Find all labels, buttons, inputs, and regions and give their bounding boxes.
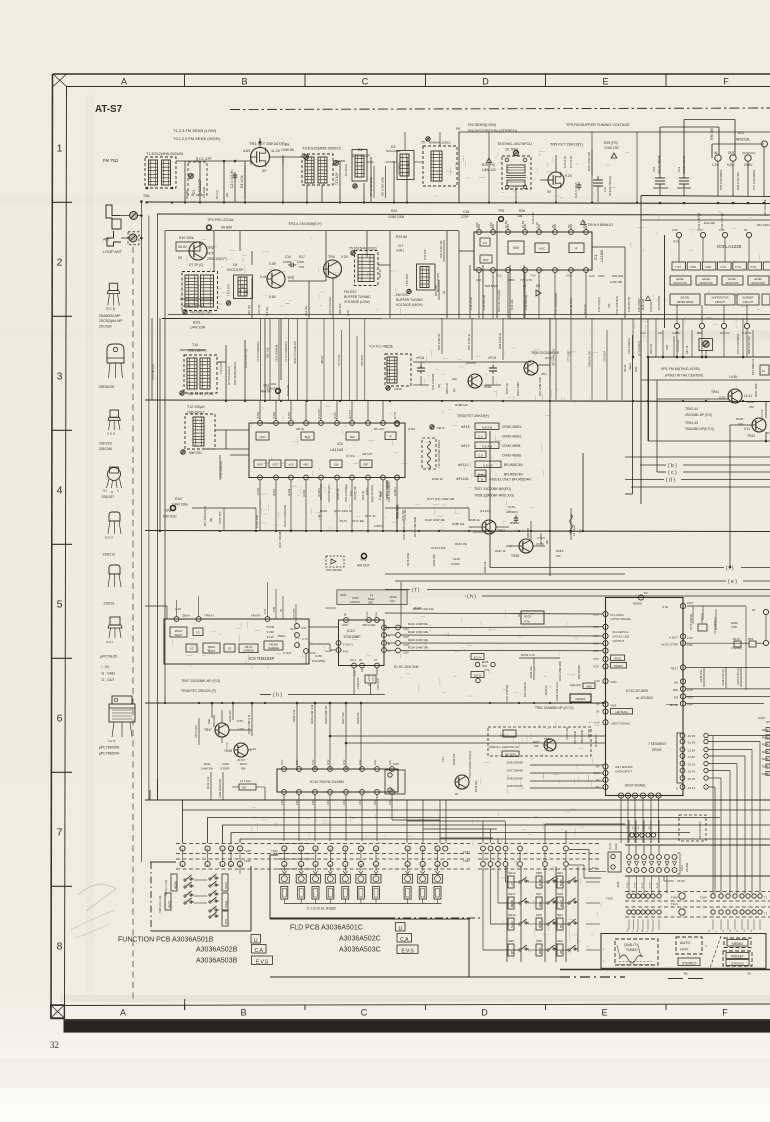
svg-text:3.8V: 3.8V: [475, 222, 479, 228]
svg-text:SCAN: SCAN: [511, 921, 514, 928]
svg-text:2 ND: 2 ND: [690, 265, 696, 269]
varactor D2 box: [344, 150, 367, 189]
svg-text:VSS: VSS: [611, 704, 617, 708]
svg-text:F OUT-1: F OUT-1: [343, 643, 354, 647]
ic12 bottom pin row: [618, 793, 661, 798]
svg-text:R150 (FS) 1/4W 220: R150 (FS) 1/4W 220: [294, 340, 297, 364]
svg-text:T8 EX6C-30174FCU: T8 EX6C-30174FCU: [497, 142, 532, 146]
svg-text:IN: IN: [714, 151, 718, 155]
svg-text:R215 1/4W 4.7k: R215 1/4W 4.7k: [247, 714, 251, 734]
svg-text:0.047(2): 0.047(2): [325, 606, 336, 610]
svg-text:6.2V: 6.2V: [589, 274, 595, 278]
svg-text:(5.5V): (5.5V): [256, 412, 260, 419]
svg-text:DATA INPUT: DATA INPUT: [615, 770, 632, 774]
svg-text:F OUT: F OUT: [283, 651, 292, 655]
svg-text:(1.5V): (1.5V): [287, 412, 291, 419]
svg-text:E: E: [601, 1008, 607, 1018]
dashed divider: [710, 936, 721, 968]
svg-text:I G O: I G O: [108, 739, 116, 743]
wire bottom right bus1: [625, 844, 770, 846]
label TR42-44 types: [685, 407, 714, 431]
texture wires row7: [481, 721, 601, 793]
svg-text:TR47 2SC536K-NP (F,G): TR47 2SC536K-NP (F,G): [181, 679, 220, 683]
svg-text:ALE: ALE: [288, 463, 293, 467]
svg-text:C34 270P: C34 270P: [469, 297, 473, 310]
svg-text:R63 (2): R63 (2): [361, 491, 365, 500]
svg-text:5: 5: [57, 599, 63, 611]
wire connector fan 3: [223, 825, 770, 843]
page border frame top lines: [53, 74, 770, 87]
svg-text:10k: 10k: [738, 422, 743, 426]
svg-text:SW2: SW2: [557, 913, 563, 917]
svg-text:LEVEL: LEVEL: [676, 277, 685, 281]
svg-text:UP: UP: [511, 882, 514, 886]
resistor R214: [228, 702, 234, 722]
ic IC11 SN74LS145N box: [277, 767, 398, 795]
labels under T105 rows: [627, 929, 753, 932]
svg-text:90: 90: [684, 972, 688, 976]
label TR51 type: [535, 706, 574, 710]
svg-text:C198 470P (2): C198 470P (2): [721, 669, 725, 686]
label FLD PCB: [290, 923, 418, 955]
faint pencil marks bottom left: [70, 884, 116, 938]
svg-text:C,A: C,A: [478, 434, 483, 438]
grid row numbers left: [57, 143, 63, 953]
svg-text:0.5 GND: 0.5 GND: [293, 608, 296, 618]
svg-text:(N): (N): [437, 384, 441, 388]
wire TR3 TR4: [283, 255, 326, 318]
svg-text:2SA608K-NP(E,F,G): 2SA608K-NP(E,F,G): [685, 427, 714, 431]
svg-text:CFM2-4599L: CFM2-4599L: [502, 444, 521, 448]
svg-text:D: D: [481, 1008, 488, 1018]
ic IC2 pins: [712, 141, 768, 167]
svg-text:T107: T107: [463, 850, 470, 854]
svg-text:VCC: VCC: [496, 274, 502, 278]
svg-text:BFU455C4N: BFU455C4N: [504, 463, 523, 467]
filter F12: [652, 155, 668, 196]
ic10 top components box: [337, 590, 407, 605]
label C64: [431, 373, 441, 390]
svg-text:C115 470P: C115 470P: [396, 504, 400, 518]
svg-text:SIGNAL: SIGNAL: [680, 296, 690, 300]
svg-text:C105 15P: C105 15P: [218, 511, 222, 524]
switch SW12: [508, 871, 529, 888]
transistor legend uPC78M05H pictogram: [99, 696, 135, 756]
svg-text:R88 1k: R88 1k: [510, 521, 520, 525]
svg-text:SFE10.7MX(A): SFE10.7MX(A): [608, 176, 612, 196]
function pcb box: [150, 862, 251, 931]
tr51 subcircuit box: [488, 726, 598, 756]
svg-text:F: F: [723, 76, 729, 86]
svg-text:R17: R17: [299, 255, 305, 259]
svg-text:C169 100/10(M): C169 100/10(M): [218, 779, 222, 798]
svg-text:BUFFER TUNING: BUFFER TUNING: [344, 295, 371, 299]
fld digit elements: [279, 871, 442, 904]
svg-text:1.1V: 1.1V: [535, 222, 539, 228]
svg-text:(8V): (8V): [541, 372, 547, 376]
svg-text:(2B): (2B): [368, 601, 373, 605]
ic1 pin voltage labels: [475, 221, 595, 288]
svg-text:ACL-M: ACL-M: [474, 656, 482, 659]
label R211 C168 R213: [201, 762, 247, 771]
svg-text:R187 1k: R187 1k: [495, 549, 506, 553]
svg-text:(5.6V): (5.6V): [272, 489, 276, 496]
label 7 segment drive: [648, 742, 666, 752]
svg-text:C149 0.022: C149 0.022: [431, 546, 446, 550]
label cluster under ic8 left: [278, 482, 391, 548]
svg-text:G7 2P (C): G7 2P (C): [189, 263, 203, 267]
svg-text:3.6V: 3.6V: [295, 799, 299, 805]
svg-text:0V: 0V: [596, 785, 600, 789]
wire fld drops: [284, 867, 437, 872]
resistor R36: [710, 128, 714, 140]
svg-text:-16.0V: -16.0V: [687, 741, 695, 745]
svg-text:C6 0.001(H): C6 0.001(H): [151, 364, 155, 380]
svg-text:FET: FET: [207, 252, 213, 256]
wire right verticals through: [712, 736, 714, 894]
svg-text:25kHz: 25kHz: [175, 629, 183, 633]
texture wires row8: [501, 861, 601, 959]
svg-text:CH NO. LED: CH NO. LED: [613, 635, 630, 639]
svg-text:(2): (2): [578, 529, 582, 533]
svg-text:4.7k: 4.7k: [524, 620, 530, 624]
svg-text:M: M: [762, 369, 765, 373]
svg-text:10.7V: 10.7V: [582, 221, 586, 228]
row3 right cluster labels: [627, 319, 753, 358]
svg-text:0V: 0V: [178, 256, 183, 260]
texture wires row6: [400, 610, 577, 696]
svg-text:T104: T104: [700, 896, 707, 900]
svg-text:R43 1/4W 220: R43 1/4W 220: [757, 223, 770, 227]
svg-text:R40 1/4W 330: R40 1/4W 330: [736, 172, 740, 190]
svg-text:C,A: C,A: [478, 453, 483, 457]
label TP9: [566, 123, 630, 127]
svg-text:R29 (FS): R29 (FS): [604, 141, 618, 145]
svg-text:C? 0.033(4): C? 0.033(4): [637, 341, 641, 356]
svg-text:R42 330: R42 330: [704, 221, 715, 225]
resistor array above ic11: [292, 702, 362, 770]
transistor TR3: [257, 262, 294, 316]
svg-text:IC3 LA1235: IC3 LA1235: [717, 244, 742, 249]
svg-text:SW9: SW9: [508, 939, 514, 943]
svg-text:U: U: [398, 926, 402, 932]
svg-text:IC9 TD6102P: IC9 TD6102P: [249, 656, 275, 661]
svg-text:C92 22/50: C92 22/50: [539, 533, 543, 546]
svg-text:µPC79L05: µPC79L05: [100, 655, 117, 659]
svg-text:G : GND: G : GND: [102, 672, 116, 676]
svg-text:FM OSC(LOW): FM OSC(LOW): [190, 311, 212, 315]
svg-text:TC4 10P: TC4 10P: [227, 284, 231, 296]
svg-text:-2V: -2V: [627, 826, 629, 830]
label TR3-4: [288, 222, 322, 226]
svg-text:1/4W (k: 1/4W (k: [374, 524, 384, 528]
svg-text:5.01/20(N): 5.01/20(N): [312, 659, 325, 663]
svg-text:SHIFT: SHIFT: [175, 633, 183, 637]
svg-text:1 ST: 1 ST: [675, 265, 681, 269]
svg-text:SFE10.7MP6A: SFE10.7MP6A: [657, 155, 661, 174]
svg-text:2.82V: 2.82V: [508, 278, 515, 282]
svg-text:4.0V: 4.0V: [593, 642, 599, 646]
svg-text:AUTO: AUTO: [680, 941, 691, 945]
svg-text:10k: 10k: [556, 554, 561, 558]
transistor TR42: [730, 410, 770, 567]
svg-text:R63 1/4W 2k: R63 1/4W 2k: [437, 333, 441, 350]
wire bottom left rail: [270, 918, 560, 977]
svg-text:R186 1k: R186 1k: [469, 518, 480, 522]
svg-text:C79 100P: C79 100P: [604, 351, 607, 362]
svg-text:C147 0.1/50 (M): C147 0.1/50 (M): [402, 520, 406, 540]
label cluster under ic8 right: [385, 480, 455, 521]
svg-text:C161: C161: [340, 593, 347, 597]
svg-text:SW5: SW5: [536, 939, 542, 943]
svg-text:E: E: [602, 76, 608, 86]
capacitor C151: [506, 505, 520, 525]
label IC3 LA1235: [717, 244, 742, 249]
svg-text:R212 3.3k: R212 3.3k: [206, 776, 210, 789]
svg-text:BUFFER TUNING: BUFFER TUNING: [396, 298, 423, 302]
svg-text:0.8V: 0.8V: [593, 649, 599, 653]
svg-text:47k: 47k: [607, 303, 611, 308]
wire right bus under d: [625, 335, 770, 494]
svg-text:IF: IF: [389, 435, 392, 439]
svg-text:FM: FM: [561, 925, 563, 928]
svg-text:D1: D1: [192, 190, 196, 194]
switch SW4b: [557, 871, 578, 888]
label TR1 FET: [249, 141, 286, 146]
ic IC8 LA1245 box: [249, 421, 405, 480]
transistor TR37 audio: [473, 509, 505, 534]
svg-text:1.2V: 1.2V: [250, 747, 256, 751]
svg-text:1/2: 1/2: [196, 631, 200, 635]
svg-text:TR48: TR48: [224, 749, 232, 753]
svg-text:IC13: IC13: [680, 865, 684, 871]
svg-text:R3 (H): R3 (H): [215, 190, 219, 199]
svg-text:R182 1k: R182 1k: [432, 477, 443, 481]
switch SW1b: [557, 939, 578, 956]
wire function pcb stubs: [194, 856, 240, 903]
svg-text:FM: FM: [674, 696, 679, 700]
svg-text:11.2V: 11.2V: [271, 149, 281, 153]
transistor TR48 q: [224, 742, 256, 762]
svg-text:KHZ: KHZ: [512, 949, 514, 954]
svg-text:TR35: TR35: [483, 385, 491, 389]
transformer T4: [181, 272, 218, 315]
svg-text:D52: D52: [748, 637, 754, 641]
svg-text:R235 1k: R235 1k: [544, 684, 548, 695]
svg-text:G2: G2: [103, 489, 107, 493]
svg-text:OSC: OSC: [272, 463, 278, 467]
svg-text:4.3V: 4.3V: [593, 665, 599, 669]
svg-text:L3 27µH: L3 27µH: [240, 779, 251, 783]
switch SW11: [508, 892, 529, 909]
ic12 right pin labels: [661, 605, 678, 707]
label S1 HC: [394, 665, 419, 669]
wire box row1 right: [459, 132, 770, 203]
svg-text:C2 0.001(H): C2 0.001(H): [230, 170, 234, 188]
svg-text:R25 6P(2): R25 6P(2): [485, 284, 498, 288]
svg-text:9.0V: 9.0V: [269, 262, 277, 266]
svg-text:PLL DATA G: PLL DATA G: [613, 630, 630, 634]
svg-text:D47 DS448: D47 DS448: [507, 769, 523, 773]
ic8 right pins: [385, 422, 399, 498]
svg-text:3.6V: 3.6V: [388, 759, 392, 765]
svg-text:8.1V: 8.1V: [592, 866, 598, 870]
svg-text:R96 (FS) 220: R96 (FS) 220: [589, 350, 592, 366]
svg-text:7.6V: 7.6V: [530, 274, 536, 278]
svg-text:MODEL ONLY BFU455D4N: MODEL ONLY BFU455D4N: [490, 478, 531, 482]
svg-text:2.3V: 2.3V: [687, 636, 693, 640]
svg-text:3.6V: 3.6V: [342, 799, 346, 805]
wire row2 inner verticals: [214, 231, 390, 318]
svg-text:R213: R213: [240, 762, 247, 766]
label R187 R185: [483, 549, 564, 573]
svg-text:C173 0.022(6RN): C173 0.022(6RN): [284, 342, 288, 362]
svg-text:VDD: VDD: [611, 680, 617, 684]
svg-text:25kHz: 25kHz: [182, 614, 191, 618]
svg-text:S G D: S G D: [107, 432, 116, 436]
svg-text:R36 (FS): R36 (FS): [612, 274, 623, 278]
svg-text:T12 100µH: T12 100µH: [187, 405, 205, 409]
svg-text:C199 0.33µ: C199 0.33µ: [566, 726, 569, 740]
svg-text:(10.4V): (10.4V): [473, 530, 483, 534]
texture wires row2: [181, 236, 429, 315]
svg-text:DRIVE: DRIVE: [652, 748, 662, 752]
svg-text:F11: F11: [603, 187, 607, 192]
grid column tick marks bottom: [185, 999, 667, 1010]
svg-text:R249 100k: R249 100k: [699, 669, 703, 682]
svg-text:R226 1/4W 10k: R226 1/4W 10k: [324, 705, 328, 724]
svg-text:TC1,2,3 FM SENS (HIGH): TC1,2,3 FM SENS (HIGH): [173, 136, 221, 141]
display status outer box: [601, 934, 766, 969]
ic12 right pins: [680, 603, 685, 706]
svg-text:R52 47k 0.01(4N): R52 47k 0.01(4N): [497, 290, 501, 312]
svg-text:R63B (B): R63B (B): [336, 488, 340, 500]
svg-text:-27.4V: -27.4V: [657, 882, 659, 889]
wire row6 lower wires: [330, 736, 605, 743]
svg-text:C31 100(4N)(6B): C31 100(4N)(6B): [554, 293, 558, 314]
svg-text:0V: 0V: [744, 228, 748, 232]
svg-text:BUF: BUF: [257, 463, 263, 467]
svg-text:2.8V: 2.8V: [295, 759, 299, 765]
black footer bar: [64, 1019, 770, 1033]
svg-text:D28: D28: [207, 719, 211, 724]
label FM OSC buffer low: [344, 290, 371, 304]
svg-text:C77 0.022: C77 0.022: [568, 350, 571, 362]
ic11 bottom voltage labels: [280, 799, 392, 805]
svg-text:MEMO: MEMO: [174, 881, 178, 889]
svg-text:µPC78M05H: µPC78M05H: [99, 746, 120, 750]
svg-text:FM 75Ω: FM 75Ω: [103, 158, 118, 163]
svg-text:IC8: IC8: [337, 442, 343, 446]
wire row1 right upper bus: [641, 196, 770, 197]
transistor TR2: [178, 241, 227, 267]
svg-text:TR5 FET 2SK19(Y): TR5 FET 2SK19(Y): [550, 143, 584, 147]
svg-text:BAND: BAND: [225, 882, 228, 889]
svg-text:T1 ES12(4N5-200443: T1 ES12(4N5-200443: [146, 152, 183, 156]
svg-text:A3036A502C: A3036A502C: [339, 936, 381, 943]
svg-text:5.1V: 5.1V: [280, 759, 284, 765]
svg-text:RF 101: RF 101: [238, 290, 249, 294]
svg-text:E C B: E C B: [107, 307, 115, 311]
preset station box: [723, 951, 752, 966]
box D4 SVC fm osc high: [405, 249, 446, 294]
svg-text:C55 0.022(6RN): C55 0.022(6RN): [719, 170, 723, 190]
svg-text:P IN: P IN: [343, 650, 348, 654]
ic12 right voltages: [687, 601, 693, 707]
svg-text:SW8: SW8: [536, 871, 542, 875]
transistor legend 2SK212 pictogram: [103, 512, 122, 557]
svg-text:※FL10A: ※FL10A: [456, 477, 469, 481]
svg-text:T5: T5: [421, 141, 425, 145]
wire right block frame: [648, 357, 767, 568]
wire row2 mid verticals: [447, 221, 541, 318]
svg-text:or AT-801: or AT-801: [636, 695, 654, 700]
svg-text:4: 4: [632, 930, 634, 932]
svg-text:4.0V: 4.0V: [311, 759, 315, 765]
svg-text:D4 2P(2): D4 2P(2): [344, 164, 348, 176]
label 2.4V ic9: [145, 582, 296, 624]
svg-text:R22: R22: [391, 209, 397, 213]
svg-text:R231 1/4W 100k: R231 1/4W 100k: [558, 660, 562, 681]
svg-text:SFE10.7MP6A: SFE10.7MP6A: [682, 155, 686, 174]
wire bottom heavy rail: [560, 970, 770, 978]
svg-text:BFU455C4N: BFU455C4N: [504, 473, 523, 477]
svg-text:SW12: SW12: [508, 871, 516, 875]
svg-text:TC9128BP: TC9128BP: [343, 635, 361, 639]
transformer T12: [181, 414, 215, 455]
svg-text:-2V: -2V: [649, 826, 651, 830]
svg-text:C64 0.022/M: C64 0.022/M: [431, 373, 435, 390]
svg-text:B: B: [240, 1008, 246, 1018]
svg-text:SW2: SW2: [586, 684, 592, 688]
transistor TR47 q: [204, 719, 244, 737]
svg-text:0V: 0V: [752, 608, 756, 612]
connector row T107 bottom: [463, 851, 600, 869]
link wire c: [657, 470, 770, 476]
svg-text:TR50 2SC536K-NP(F,G): TR50 2SC536K-NP(F,G): [469, 750, 472, 778]
svg-text:0.1µ: 0.1µ: [374, 611, 378, 617]
svg-text:R10 (G): R10 (G): [247, 305, 251, 315]
svg-text:※FL9: ※FL9: [488, 356, 496, 360]
svg-text:TR41: TR41: [711, 390, 719, 394]
svg-text:DETECTOR: DETECTOR: [673, 282, 686, 285]
svg-text:15.8V: 15.8V: [677, 879, 685, 883]
svg-text:2SK212: 2SK212: [103, 553, 116, 557]
diode D95 box: [326, 556, 344, 572]
label TP6 MW OSC: [163, 506, 178, 519]
svg-text:CFM2-460BL: CFM2-460BL: [502, 454, 522, 458]
svg-text:470k: 470k: [731, 625, 738, 629]
svg-text:0.047(2): 0.047(2): [649, 302, 653, 312]
wire row1 main bus: [145, 201, 770, 203]
svg-text:TR48 FET 2SK223 (F): TR48 FET 2SK223 (F): [181, 689, 216, 693]
svg-text:X2 FC6453N-L: X2 FC6453N-L: [713, 616, 717, 634]
svg-text:C170 0.022(6RN): C170 0.022(6RN): [256, 342, 260, 362]
svg-text:GND: GND: [342, 623, 348, 627]
svg-text:TM1: TM1: [143, 194, 150, 198]
label R188 10k: [455, 403, 468, 407]
svg-text:D4 SVC211SP: D4 SVC211SP: [436, 273, 440, 292]
svg-text:3.6V: 3.6V: [388, 799, 392, 805]
wire t104 drops: [629, 876, 760, 930]
svg-text:C62 470P(G): C62 470P(G): [219, 461, 223, 478]
svg-text:MW OSC: MW OSC: [189, 451, 203, 455]
svg-text:L4: L4: [370, 593, 373, 597]
wire ic10 right resistors: [387, 622, 604, 655]
svg-text:µPC78M24H: µPC78M24H: [99, 752, 120, 756]
wire ic11 bottom drops: [284, 795, 440, 842]
wire row1 right verticals: [367, 132, 637, 202]
